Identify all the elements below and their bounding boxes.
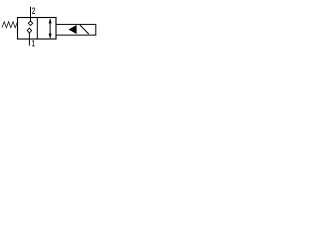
port 1 label bbox=[32, 40, 35, 46]
port 1 line bbox=[28, 33, 30, 46]
flow arrow head down bbox=[49, 34, 52, 39]
return spring bbox=[2, 22, 18, 28]
lower poppet diamond bbox=[27, 28, 31, 33]
port 2 line bbox=[30, 7, 32, 21]
flow arrow head up bbox=[49, 18, 52, 23]
upper poppet diamond bbox=[28, 21, 32, 26]
valve body outline (two-position envelope) bbox=[18, 18, 57, 40]
solenoid box bbox=[56, 24, 96, 35]
solenoid armature triangle bbox=[69, 25, 77, 34]
flow arrow shaft (open position) bbox=[49, 19, 51, 38]
position divider line bbox=[36, 18, 38, 40]
port 2 label bbox=[32, 8, 35, 14]
solenoid coil diagonal bbox=[80, 25, 89, 34]
